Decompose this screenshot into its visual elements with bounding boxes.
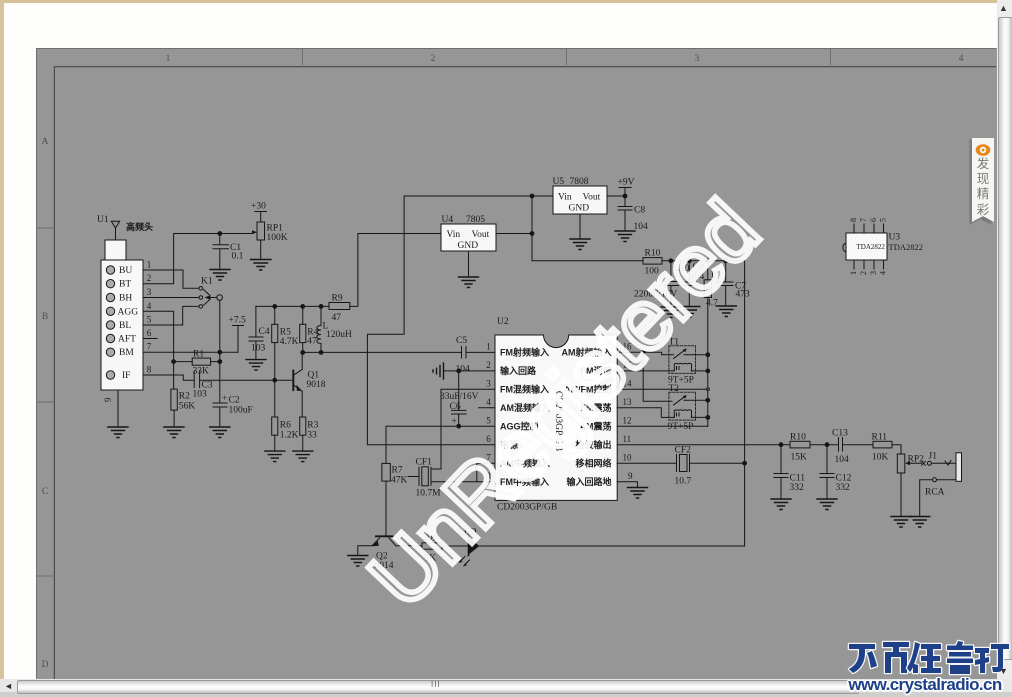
svg-text:B: B	[42, 312, 48, 322]
svg-text:+9V: +9V	[618, 178, 635, 188]
ground at C4	[246, 360, 266, 371]
svg-text:C8: C8	[634, 206, 645, 216]
tuner U1 body box	[101, 260, 143, 390]
capacitor C8	[618, 196, 648, 232]
ruler row dividers	[37, 228, 55, 576]
ground at RP2	[891, 517, 911, 528]
svg-text:C5: C5	[456, 336, 467, 346]
capacitor C13 104	[827, 429, 873, 466]
svg-text:4.7K: 4.7K	[280, 337, 299, 347]
junction pin5/C6	[456, 424, 461, 429]
svg-text:BT: BT	[119, 280, 131, 290]
wire pin11 detector out rail	[617, 444, 781, 446]
wire long riser to LED rail	[744, 261, 746, 546]
connector J1 RCA	[920, 452, 962, 517]
ground at C7	[716, 306, 736, 317]
svg-text:C2: C2	[229, 396, 240, 406]
svg-text:2: 2	[859, 271, 868, 275]
junction pin2/C6	[456, 369, 461, 374]
wire K1 pole down to C2	[219, 300, 221, 403]
svg-text:C6: C6	[450, 402, 461, 412]
svg-text:C11: C11	[790, 474, 806, 484]
ground at pin9	[628, 488, 648, 499]
wire riser to T2 top	[643, 352, 672, 401]
svg-text:3: 3	[147, 287, 152, 297]
svg-text:9: 9	[628, 471, 633, 481]
wire C4/R5/R4/L top rail	[256, 305, 329, 307]
capacitor C10 220uF	[634, 258, 690, 307]
svg-text:U2: U2	[497, 317, 509, 327]
svg-text:2: 2	[431, 54, 436, 64]
svg-text:11: 11	[623, 434, 632, 444]
svg-text:R11: R11	[872, 433, 888, 443]
svg-text:7: 7	[859, 218, 868, 222]
stub pin4	[479, 407, 496, 409]
svg-text:UnRegistered: UnRegistered	[351, 183, 778, 625]
regulator U5 7808	[553, 177, 608, 239]
svg-text:BH: BH	[119, 294, 132, 304]
svg-text:4: 4	[879, 271, 888, 275]
svg-text:10.7: 10.7	[675, 477, 692, 487]
wire pin9 to ground	[617, 482, 637, 488]
wire pin16 to T1	[617, 352, 673, 355]
svg-text:100uF: 100uF	[229, 406, 253, 416]
U1 pin names	[118, 266, 139, 381]
capacitor C11 332	[774, 445, 805, 499]
wire pin3 to CF1	[431, 389, 495, 469]
svg-text:2: 2	[486, 360, 491, 370]
svg-text:BM: BM	[119, 348, 134, 358]
svg-text:+30: +30	[251, 202, 266, 212]
svg-text:1: 1	[147, 260, 152, 270]
svg-text:0.1: 0.1	[232, 252, 244, 262]
junction U5 Vin	[530, 194, 535, 199]
ground at U5	[570, 239, 590, 250]
wire pin2 up to top bus	[143, 234, 174, 284]
ground at Q2	[348, 556, 368, 567]
svg-text:56K: 56K	[179, 402, 196, 412]
svg-text:332: 332	[836, 483, 851, 493]
resistor R9	[329, 294, 350, 324]
svg-text:TDA2822: TDA2822	[857, 243, 886, 251]
junction T1 bottom	[705, 369, 710, 374]
resistor R6	[272, 417, 299, 451]
junction T1 top	[705, 352, 710, 357]
junction L bottom	[319, 350, 324, 355]
junction CF2/riser	[742, 461, 747, 466]
capacitor C7 473	[720, 258, 751, 306]
wire U5 Vout to +9V	[607, 195, 625, 197]
wire pin4 down to R1 and R2	[143, 311, 174, 389]
resistor R8 1K	[422, 534, 442, 564]
junction pin16/riser	[641, 350, 646, 355]
svg-text:6: 6	[147, 328, 152, 338]
junction pole/R1	[217, 359, 222, 364]
wire pin15 to T1 coil	[617, 370, 674, 372]
svg-text:4: 4	[959, 54, 964, 64]
resistor R10	[643, 249, 662, 277]
svg-text:RCA: RCA	[925, 488, 945, 498]
svg-text:A: A	[42, 137, 49, 147]
ceramic filter CF2 10.7	[617, 446, 744, 487]
svg-text:100K: 100K	[267, 233, 288, 243]
U1 pin 9	[103, 390, 118, 427]
wire Vout rail to R10	[532, 260, 643, 262]
wire pin1 to K1 upper contact	[143, 270, 199, 288]
svg-text:U3: U3	[889, 233, 901, 243]
resistor R1	[174, 350, 220, 377]
wire Q1 collector rail to C5	[303, 351, 462, 353]
svg-text:332: 332	[790, 483, 805, 493]
U2 right pin numbers	[623, 342, 634, 482]
wire LED to riser	[479, 545, 744, 547]
junction pin4/R1	[171, 359, 176, 364]
svg-text:R9: R9	[332, 294, 343, 304]
svg-text:33uF/16V: 33uF/16V	[440, 392, 479, 402]
svg-text:4: 4	[486, 397, 491, 407]
capacitor C3	[193, 371, 292, 399]
svg-text:5: 5	[879, 218, 888, 222]
svg-text:IF: IF	[122, 371, 130, 381]
svg-text:7: 7	[147, 342, 152, 352]
wire pin5 to K1 lower contact	[143, 306, 199, 325]
svg-text:BL: BL	[119, 321, 131, 331]
wire riser U4/U5	[531, 196, 533, 261]
power +9V	[618, 178, 635, 197]
svg-text:+7.5: +7.5	[229, 316, 246, 326]
capacitor C2	[213, 394, 253, 427]
svg-text:R3: R3	[307, 421, 318, 431]
wire pin14 rail	[617, 388, 708, 390]
regulator U4 7805	[441, 215, 496, 277]
transistor Q1 9018	[293, 352, 325, 417]
antenna symbol	[111, 221, 119, 240]
U2 right pin labels	[562, 346, 612, 487]
capacitor C9 104	[683, 258, 705, 306]
transformer T1 9T+5P	[668, 338, 708, 386]
svg-text:FM射频输入: FM射频输入	[500, 346, 549, 357]
svg-text:K1: K1	[201, 277, 213, 287]
svg-text:9018: 9018	[307, 380, 326, 390]
svg-text:103: 103	[193, 390, 208, 400]
tilted ground at pin2	[433, 363, 444, 379]
junction bus C1	[217, 231, 222, 236]
svg-text:1: 1	[486, 342, 491, 352]
svg-text:Vout: Vout	[472, 230, 490, 240]
junction R5 top	[272, 304, 277, 309]
resistor R7 47K	[382, 426, 408, 536]
wire pin5 AGG to R7	[386, 425, 495, 427]
svg-text:4: 4	[147, 301, 152, 311]
wire pin8 IF to C3	[143, 375, 194, 380]
junction pin14	[706, 387, 710, 391]
svg-text:CF1: CF1	[416, 458, 433, 468]
svg-text:C12: C12	[836, 474, 852, 484]
wire pin13 to T2 coil	[617, 408, 674, 418]
capacitor C12 332	[820, 445, 852, 499]
ground at C9	[680, 307, 700, 318]
svg-text:47: 47	[332, 313, 342, 323]
capacitor C5 104	[456, 336, 496, 375]
wire R8 to LED	[442, 545, 469, 547]
svg-text:47: 47	[307, 337, 317, 347]
svg-text:8: 8	[849, 218, 858, 222]
svg-text:104: 104	[835, 455, 850, 465]
svg-text:Vin: Vin	[558, 193, 572, 203]
svg-text:U1: U1	[97, 215, 109, 225]
capacitor C1	[213, 234, 244, 270]
junction pole/pin7	[217, 350, 222, 355]
junction R4 top	[300, 304, 305, 309]
ground at R2	[164, 427, 184, 438]
power +7.5	[229, 316, 246, 353]
svg-text:9: 9	[103, 397, 113, 402]
svg-text:C13: C13	[832, 429, 848, 439]
svg-text:R7: R7	[392, 466, 403, 476]
svg-text:RP2: RP2	[908, 455, 925, 465]
resistor R2	[171, 389, 195, 427]
ground at R3	[293, 451, 313, 462]
svg-text:9T+5P: 9T+5P	[668, 422, 694, 432]
svg-text:J1: J1	[929, 452, 938, 462]
svg-text:C: C	[42, 487, 48, 497]
capacitor C6 33uF	[440, 371, 479, 427]
svg-text:+: +	[222, 394, 227, 404]
ground at C1	[210, 270, 230, 281]
IC U3 TDA2822	[843, 218, 923, 275]
svg-text:33: 33	[307, 431, 317, 441]
svg-text:AFT: AFT	[118, 335, 136, 345]
resistor R3	[300, 417, 319, 451]
wire R10 to corner	[662, 260, 745, 262]
junction U4 Vout	[530, 231, 535, 236]
wire oscillator bus	[707, 298, 709, 427]
inductor L 120uH	[317, 306, 352, 352]
ground at J1	[910, 517, 930, 528]
transformer T2 9T+5P	[668, 384, 708, 432]
svg-text:移相网络: 移相网络	[575, 457, 611, 468]
svg-text:AGG: AGG	[118, 307, 139, 317]
U1 pin circles	[106, 266, 114, 379]
U2 left pin labels	[500, 346, 550, 487]
junction R5/base	[272, 378, 277, 383]
svg-text:2: 2	[147, 273, 152, 283]
svg-text:R2: R2	[179, 392, 190, 402]
LED	[458, 528, 479, 567]
svg-text:12: 12	[623, 416, 632, 426]
svg-text:1.2K: 1.2K	[280, 431, 299, 441]
svg-text:Q1: Q1	[308, 371, 320, 381]
junction L top	[319, 304, 324, 309]
svg-text:47K: 47K	[391, 476, 408, 486]
wire pin7 to +7.5	[143, 351, 238, 353]
wire pin3 to K1 middle contact	[143, 297, 199, 299]
junction T2 bottom	[705, 415, 710, 420]
IC U2 CD2003GP/GB body	[495, 317, 617, 513]
switch K1	[199, 287, 222, 309]
junction Q1 collector	[300, 350, 305, 355]
resistor R5	[272, 306, 299, 417]
svg-text:BU: BU	[119, 266, 132, 276]
tuner U1 antenna connector box	[105, 240, 126, 260]
svg-text:GND: GND	[458, 241, 479, 251]
resistor R10b 15K	[781, 433, 827, 463]
U2 left pin numbers	[486, 342, 491, 482]
wire R9 right to U4 Vin	[350, 234, 441, 307]
resistor R4	[300, 306, 319, 352]
wire pin2 to tilted ground	[445, 370, 496, 372]
ground at U1 pin9	[108, 427, 128, 438]
svg-text:8: 8	[147, 365, 152, 375]
ground at C2	[210, 427, 230, 438]
wire U5 Vin rail	[404, 195, 553, 197]
wire top bus to RP1	[174, 233, 253, 235]
ceramic filter CF1 10.7M	[408, 458, 441, 499]
svg-text:输入回路地: 输入回路地	[566, 476, 611, 487]
svg-text:D: D	[42, 660, 49, 670]
wire pin6 power rail	[367, 196, 495, 445]
resistor R9b 4.7	[704, 258, 722, 308]
ground at C10	[661, 307, 681, 318]
svg-text:6: 6	[869, 218, 878, 222]
svg-text:1: 1	[166, 54, 171, 64]
svg-text:120uH: 120uH	[326, 330, 352, 340]
svg-text:Vout: Vout	[583, 193, 601, 203]
svg-text:C4: C4	[259, 327, 270, 337]
svg-text:3: 3	[486, 379, 491, 389]
svg-text:高频头: 高频头	[126, 221, 153, 232]
capacitor C4	[249, 306, 270, 359]
svg-text:TDA2822: TDA2822	[889, 242, 923, 252]
svg-text:3: 3	[695, 54, 700, 64]
svg-text:5: 5	[147, 315, 152, 325]
svg-text:R10: R10	[790, 433, 806, 443]
svg-text:3: 3	[869, 271, 878, 275]
svg-text:Vin: Vin	[447, 230, 461, 240]
stub pin7 hook	[477, 463, 495, 482]
svg-text:10: 10	[623, 453, 633, 463]
ruler column dividers	[303, 49, 831, 67]
svg-text:GND: GND	[569, 204, 590, 214]
junction T2 top	[705, 398, 710, 403]
svg-text:15K: 15K	[791, 453, 808, 463]
potentiometer RP2	[897, 454, 924, 517]
resistor R11 10K	[872, 433, 902, 463]
wire U4 Vout to riser	[496, 233, 532, 235]
wire CF1 to pin8	[431, 481, 495, 483]
junction R10b/C12	[825, 442, 830, 447]
svg-text:R5: R5	[280, 328, 291, 338]
svg-text:1: 1	[849, 271, 858, 275]
svg-text:RP1: RP1	[267, 224, 284, 234]
ground at C12	[817, 499, 837, 510]
ground at C8	[615, 231, 635, 242]
stub pin6	[143, 338, 157, 340]
svg-text:10K: 10K	[872, 453, 889, 463]
wire pin12 rail	[617, 425, 708, 427]
svg-text:R6: R6	[280, 421, 291, 431]
svg-text:+: +	[452, 417, 457, 427]
ground at R6	[265, 451, 285, 462]
junction +9V/C8	[623, 194, 628, 199]
svg-text:473: 473	[736, 290, 751, 300]
svg-text:33K: 33K	[193, 367, 210, 377]
svg-text:R1: R1	[193, 350, 204, 360]
svg-text:103: 103	[251, 344, 266, 354]
potentiometer RP1	[252, 212, 288, 260]
junction pin11/C11	[779, 442, 784, 447]
U1 pin numbers	[147, 260, 152, 375]
transistor Q2 9014	[358, 536, 422, 571]
ground at U4	[459, 277, 479, 288]
ground at RP1	[251, 260, 272, 271]
ground at C11	[771, 499, 791, 510]
